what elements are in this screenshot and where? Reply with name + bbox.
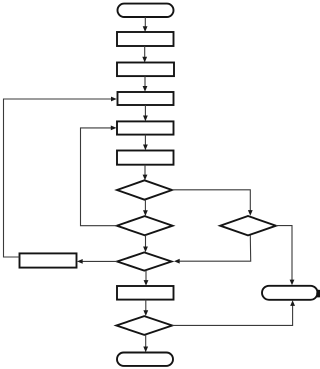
black blob at right edge <box>316 290 320 298</box>
wire D5 to T3 <box>143 335 148 352</box>
decision D3 (right) <box>220 216 276 235</box>
process R5 <box>117 151 174 165</box>
wire R3 to R4 <box>143 105 148 121</box>
process R1 <box>117 32 174 46</box>
process R3 <box>118 92 174 105</box>
process R6 (left) <box>20 253 77 267</box>
wire D4 to R7 <box>144 271 149 286</box>
wire R5 to D1 <box>143 165 148 181</box>
wire D3 to D4 (down then left) <box>174 235 251 263</box>
wire D4 to R6 <box>77 259 117 264</box>
wire D1 to D2 <box>143 200 148 216</box>
decision D2 <box>117 216 173 235</box>
process R4 <box>117 121 174 134</box>
decision D4 <box>117 252 171 270</box>
wire D2 to R4 (feedback loop) <box>81 126 117 226</box>
wire D3 to T2 (right then down) <box>276 226 294 286</box>
wire T1 to R1 <box>143 17 148 32</box>
terminator T1 (start) <box>118 4 174 17</box>
wire R6 to R3 (long feedback loop) <box>4 97 117 257</box>
wire D2 to D4 <box>143 235 148 252</box>
wire D1 to D3 (right branch) <box>172 190 253 216</box>
decision D1 <box>117 180 172 199</box>
process R7 <box>117 286 174 300</box>
terminator T3 (end) <box>117 353 173 366</box>
wire R7 to D5 <box>143 300 148 316</box>
wire R4 to R5 <box>143 135 148 151</box>
process R2 <box>117 63 174 77</box>
decision D5 <box>116 316 172 335</box>
terminator T2 (right) <box>262 286 318 300</box>
wire R2 to R3 <box>143 76 148 92</box>
wire D5 to T2 (right then up) <box>172 300 295 325</box>
wire R1 to R2 <box>142 46 147 63</box>
